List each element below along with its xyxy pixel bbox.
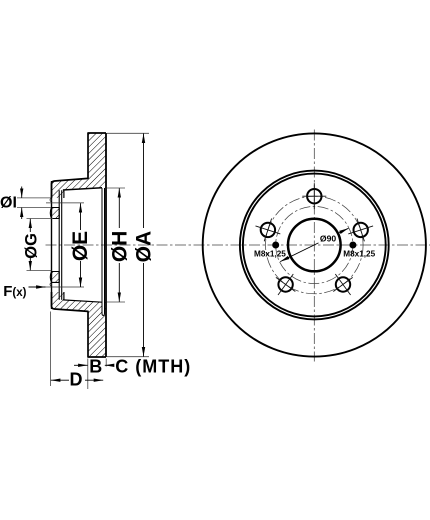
dimension ØG extension lines bbox=[27, 219, 54, 271]
stud bolt circle (dash-dot) bbox=[266, 196, 364, 294]
dimension B bbox=[74, 357, 102, 377]
svg-text:ØA: ØA bbox=[132, 231, 155, 263]
dimension ØG bbox=[22, 219, 40, 271]
svg-text:Ø90: Ø90 bbox=[320, 234, 336, 244]
label M8x1,25 left bbox=[254, 249, 286, 258]
stud hole at 306 deg bbox=[333, 274, 352, 295]
bolt hole centerline bottom bbox=[46, 286, 84, 288]
hub wall outer face through pilot bore region bbox=[51, 181, 53, 309]
M8 bolt circle Ø90 (dash-dot) bbox=[276, 206, 353, 283]
bolt hole chamfer arcs top bbox=[50, 198, 51, 202]
label M8x1,25 right bbox=[343, 249, 375, 258]
svg-text:ØG: ØG bbox=[22, 233, 40, 259]
svg-text:B: B bbox=[89, 357, 102, 377]
center pilot hole bbox=[288, 219, 341, 272]
horizontal centerline bbox=[46, 244, 430, 246]
outer diameter circle bbox=[203, 133, 426, 356]
dimension ØI bbox=[0, 187, 22, 220]
svg-text:ØI: ØI bbox=[0, 195, 17, 212]
svg-text:M8x1,25: M8x1,25 bbox=[343, 249, 375, 258]
dimension ØA bbox=[132, 134, 155, 357]
stud hole at 162 deg bbox=[256, 219, 281, 242]
hat outer circles bbox=[240, 171, 389, 320]
dimension Ø90 diameter line bbox=[280, 228, 348, 261]
svg-text:M8x1,25: M8x1,25 bbox=[254, 249, 286, 258]
pilot bore surface lines bbox=[59, 190, 62, 300]
dimension B extension lines bbox=[88, 359, 106, 390]
svg-text:ØH: ØH bbox=[109, 231, 132, 263]
dimension ØH bbox=[109, 188, 132, 302]
dimension C (MTH) bbox=[105, 357, 191, 377]
vertical centerline bbox=[313, 130, 315, 362]
M8 threaded hole left bbox=[272, 242, 279, 249]
M8 threaded hole right bbox=[349, 242, 356, 249]
hub wall boss between top bolt hole and pilot bore bbox=[50, 208, 59, 219]
dimension ØA extension lines bbox=[107, 133, 149, 356]
friction ring bottom section bbox=[52, 292, 107, 357]
dimension D extension line bbox=[49, 312, 51, 387]
dimension ØI extension lines bbox=[17, 198, 51, 208]
bolt hole chamfer arcs bottom bbox=[50, 282, 51, 286]
stud hole at 234 deg bbox=[276, 274, 295, 295]
label F(x) with arrow bbox=[3, 283, 45, 300]
stud hole at 90 deg bbox=[302, 183, 326, 209]
hub wall boss between pilot bore and bottom bolt hole bbox=[50, 272, 59, 283]
stud hole at 18 deg bbox=[348, 219, 373, 242]
svg-text:ØE: ØE bbox=[69, 231, 92, 261]
dimension ØE bbox=[69, 203, 92, 287]
dimension ØH extension lines bbox=[107, 188, 125, 302]
disc right edge bbox=[105, 133, 107, 357]
friction ring top section bbox=[52, 133, 107, 198]
svg-text:D: D bbox=[70, 369, 83, 389]
dimension D bbox=[51, 369, 103, 389]
svg-text:C (MTH): C (MTH) bbox=[115, 357, 191, 377]
bolt hole centerline top bbox=[46, 202, 84, 204]
disc inner surface slot lines bbox=[102, 188, 105, 302]
